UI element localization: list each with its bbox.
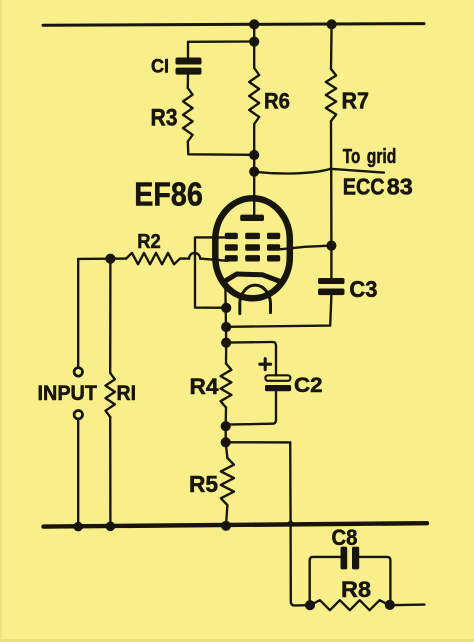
tube grid g1 row [225,255,280,261]
wire crossover hop [189,253,200,259]
wire C3 bottom to cathode node [226,295,331,327]
svg-text:R4: R4 [190,374,219,399]
svg-text:CI: CI [151,57,169,78]
tube heater [240,285,271,313]
svg-text:R6: R6 [264,88,290,113]
svg-text:R7: R7 [342,87,370,113]
svg-text:R8: R8 [341,577,371,602]
wire R1 bottom [109,417,112,526]
wire screen node to C3 [330,246,332,279]
tube cathode [225,274,280,281]
terminal input upper circle [74,368,82,376]
wire node to R5 [226,426,228,458]
svg-text:INPUT: INPUT [38,381,98,405]
tube grid g3 row [225,233,280,239]
wire cathode lead [224,281,227,342]
terminal input lower circle [74,411,82,419]
svg-text:R2: R2 [137,230,161,253]
resistor R3 [183,88,193,142]
svg-text:C2: C2 [294,373,323,397]
svg-text:To: To [343,145,361,168]
tube anode plate [240,215,264,221]
wire feedback branch vertical [290,442,310,605]
wire R4 bottom to node [225,408,228,427]
capacitor C3 [318,278,345,295]
wire C2 branch top [226,342,276,375]
wire C8 left bracket [310,557,341,605]
wire R7 bottom to output node [330,121,332,169]
wire R8 right stub [390,603,425,606]
wire feedback branch horizontal [226,441,291,443]
resistor R7 [326,69,336,121]
wire anode branch vertical [253,24,255,68]
wire screen grid lead [279,246,332,250]
tube grid g2 row [225,244,280,250]
wire input top line [78,257,126,260]
svg-text:83: 83 [387,173,413,199]
svg-text:ECC: ECC [343,173,385,199]
wire C8 right bracket [359,557,390,605]
resistor R5 [221,458,234,505]
wire R1 branch upper [109,259,112,373]
wire output node to screen node [330,169,333,246]
wire bottom rail [44,523,428,526]
resistor R6 [249,68,259,124]
wire R3 bottom to anode node [188,142,254,155]
svg-text:grid: grid [367,145,397,168]
wire cathode chain to R4 [225,343,228,364]
capacitor C2 negative plate [265,385,291,391]
svg-text:EF86: EF86 [134,175,203,212]
wire input lower vertical [77,420,79,526]
resistor R2 [126,253,180,264]
capacitor C2 positive plate [265,375,290,381]
wire C2 bottom return [226,391,276,425]
resistor R8 [310,600,390,610]
tube EF86 envelope [215,198,289,298]
svg-text:C8: C8 [332,525,358,550]
wire R6 bottom to anode [253,124,255,217]
wire C1 to R3 [187,74,190,88]
wire R2 to hop [180,257,189,259]
wire C1 top to anode branch [188,42,254,59]
wire input upper vertical [77,259,79,367]
svg-text:RI: RI [117,382,137,405]
capacitor C1 [176,58,202,75]
wire top supply rail [43,24,424,26]
svg-text:R5: R5 [189,471,218,497]
wire R5 bottom to rail [226,505,227,526]
resistor R1 [106,373,115,417]
resistor R4 [221,364,232,408]
wire grid g1 lead [200,259,227,261]
svg-text:C3: C3 [349,276,377,302]
wire anode to output (to grid line) [254,169,384,174]
svg-text:R3: R3 [151,105,178,132]
plus sign C2 [260,359,271,370]
wire R7 branch vertical [330,24,333,69]
capacitor C8 [341,547,360,570]
wire g3 lead to cathode tie [195,237,228,307]
